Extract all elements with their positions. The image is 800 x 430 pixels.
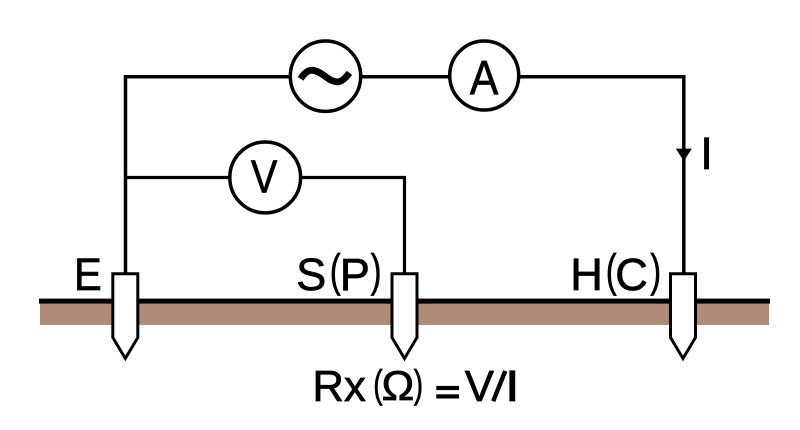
electrode E rod [113, 274, 138, 359]
svg-text:V: V [251, 151, 278, 203]
ground surface line [39, 299, 770, 304]
formula: I [509, 370, 515, 401]
svg-text:S: S [296, 249, 326, 300]
svg-text:H: H [570, 249, 603, 300]
svg-text:C: C [615, 249, 648, 300]
svg-text:I: I [700, 128, 713, 179]
soil band [40, 304, 769, 326]
current arrow [676, 149, 692, 162]
svg-text:): ) [414, 363, 423, 406]
svg-text:V: V [465, 362, 495, 411]
svg-text:A: A [470, 52, 499, 105]
wire voltmeter branch [126, 178, 405, 274]
svg-text:P: P [340, 249, 370, 300]
electrode H rod [671, 274, 696, 359]
svg-text:): ) [650, 245, 661, 296]
AC source circle [290, 41, 360, 111]
svg-text:Ω: Ω [382, 362, 415, 409]
svg-text:Rx: Rx [312, 362, 366, 411]
voltmeter circle [230, 142, 301, 213]
svg-text:): ) [371, 245, 382, 296]
electrode S rod [392, 274, 417, 359]
formula: slash [493, 371, 505, 401]
wire main loop: left vertical, top run, right vertical [126, 77, 684, 273]
svg-text:E: E [74, 249, 102, 300]
formula: equals sign bars [436, 386, 459, 390]
ammeter circle [450, 41, 519, 110]
sine symbol [301, 70, 350, 82]
